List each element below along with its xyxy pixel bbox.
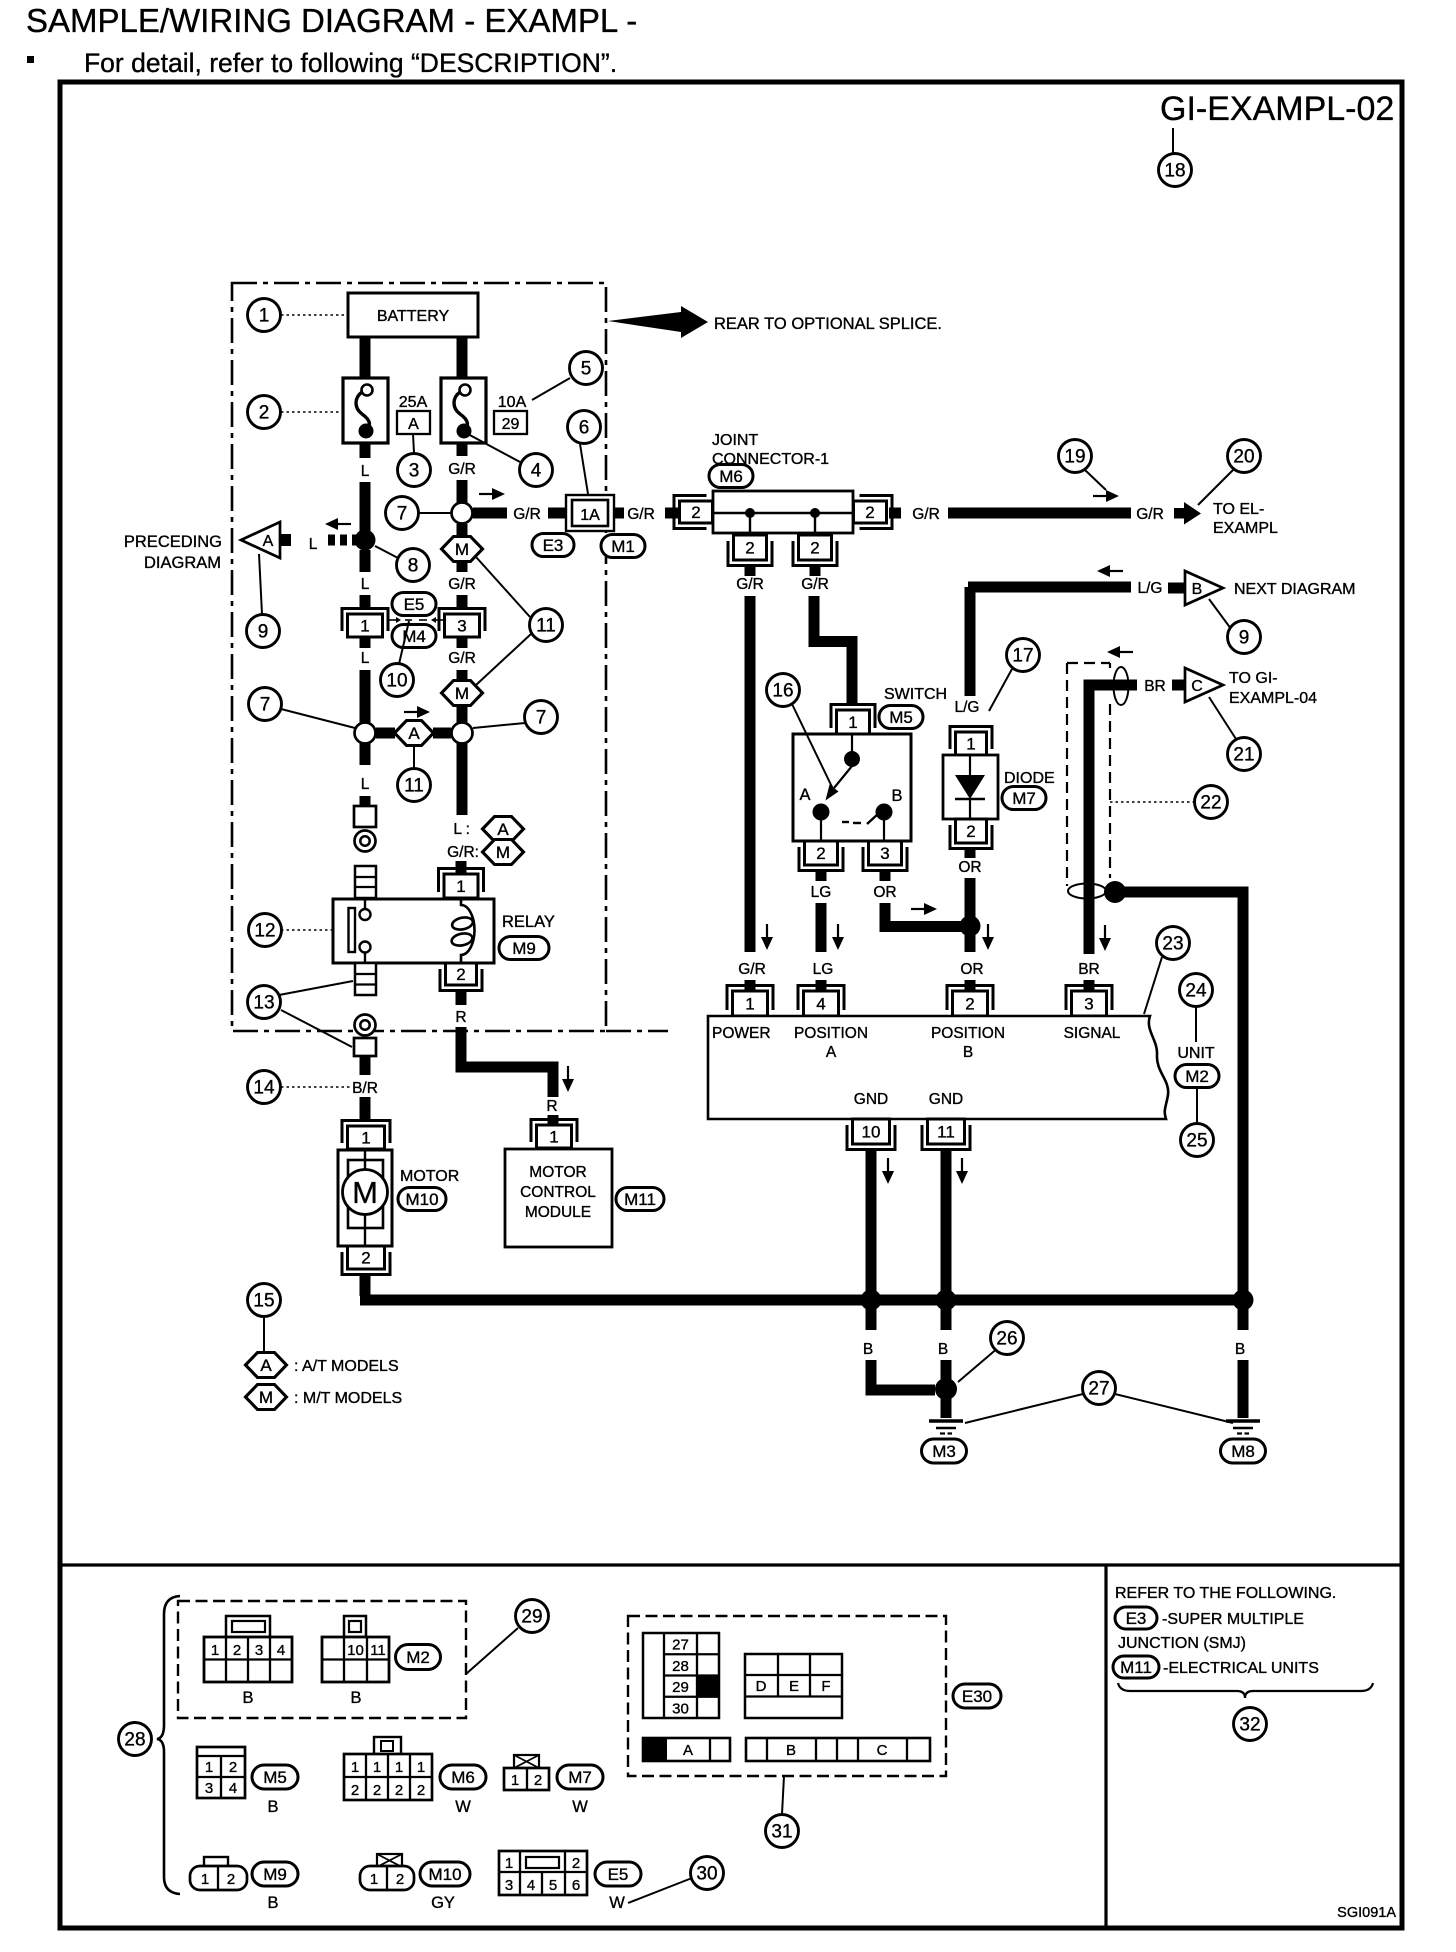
connector oval M4 (392, 625, 436, 648)
wire stub to 1A (548, 508, 568, 519)
switch contact B dot (876, 804, 893, 821)
MCM pin 1 (531, 1120, 577, 1149)
label L branch (309, 536, 318, 553)
legend separator line (60, 1563, 1402, 1566)
svg-text:G/R: G/R (738, 961, 766, 978)
label OR below diode (958, 859, 981, 876)
svg-text:EXAMPL-04: EXAMPL-04 (1229, 690, 1317, 707)
svg-text:28: 28 (672, 1658, 689, 1675)
callout 7 leader (419, 512, 451, 514)
svg-text:7: 7 (536, 708, 547, 729)
svg-text:1: 1 (456, 877, 465, 896)
svg-text:A: A (799, 786, 810, 804)
svg-text:29: 29 (672, 1679, 689, 1696)
stub BR into unit pin3 (1084, 980, 1095, 991)
svg-text:4: 4 (531, 461, 542, 482)
svg-text:L: L (361, 650, 370, 667)
legend connector M10 bowtie (377, 1854, 402, 1867)
svg-text:LG: LG (811, 884, 832, 901)
svg-text:B: B (938, 1341, 948, 1358)
svg-text:M2: M2 (406, 1648, 430, 1667)
svg-text:9: 9 (1239, 628, 1250, 649)
callout 25 (1181, 1124, 1214, 1157)
label GND b (929, 1091, 963, 1108)
connector oval M8 (1221, 1439, 1266, 1463)
svg-text:W: W (455, 1798, 471, 1816)
svg-text:B: B (963, 1044, 973, 1061)
callout 1 (248, 299, 281, 332)
svg-text:E5: E5 (608, 1865, 629, 1884)
fuse F1 25A (343, 378, 388, 443)
svg-text:L: L (361, 776, 370, 793)
diode M7 body (943, 755, 998, 819)
switch pin 3 (863, 841, 907, 871)
label L 3 (361, 650, 370, 667)
callout 10 (381, 664, 414, 697)
connector oval M11 legend (1113, 1656, 1159, 1678)
callout 30 (691, 1857, 724, 1890)
legend connector M9 (190, 1866, 247, 1890)
svg-text:2: 2 (534, 1772, 542, 1789)
legend hexagon A (483, 817, 524, 842)
legend hexagon M/T (246, 1385, 287, 1410)
label JOINT CONNECTOR-1 (712, 432, 829, 468)
wire R elbow (461, 1027, 553, 1097)
label B under connector A (242, 1689, 253, 1707)
svg-text:A: A (408, 724, 420, 743)
callout 19 (1059, 440, 1092, 473)
svg-text:2: 2 (361, 1249, 370, 1268)
callout 23 (1157, 927, 1190, 960)
dashed detail box 22 top (1067, 662, 1110, 664)
wire L (360, 482, 371, 540)
legend vertical divider (1104, 1565, 1107, 1928)
callout 7R leader (473, 723, 525, 728)
arrow right above G/R (479, 488, 505, 500)
svg-text:29: 29 (521, 1607, 542, 1628)
arrow left on L branch (325, 518, 351, 530)
fuse F2 10A (441, 378, 486, 443)
svg-text:1: 1 (205, 1759, 213, 1776)
label GND a (854, 1091, 888, 1108)
joint connector lower pin 2b (793, 535, 837, 566)
legend hexagon M (483, 840, 524, 865)
callout 5 (570, 352, 603, 385)
svg-text:JOINT: JOINT (712, 432, 758, 449)
connector oval M9 legend (252, 1862, 298, 1886)
connector oval E5 legend (595, 1862, 641, 1886)
junction dot B (935, 1378, 957, 1400)
svg-text:1: 1 (417, 1759, 425, 1776)
svg-text:G/R: G/R (448, 576, 476, 593)
stub before triangle C (1172, 680, 1184, 691)
wire L/G down to diode (965, 587, 976, 696)
svg-text:20: 20 (1233, 447, 1254, 468)
unit pin 10 (847, 1119, 895, 1150)
connector oval M7 (1002, 787, 1046, 810)
switch contact A lead (820, 820, 822, 841)
striped connector above relay (355, 866, 376, 898)
stub below diode (965, 849, 976, 858)
svg-text:1: 1 (211, 1642, 219, 1659)
svg-text:3: 3 (880, 844, 889, 863)
label GY under M10 (431, 1894, 455, 1912)
triangle C to GI-EXAMPL-04 (1185, 668, 1223, 702)
svg-text:1: 1 (549, 1128, 558, 1147)
arrow down beside GND11 (956, 1158, 968, 1184)
callout 21 (1228, 738, 1261, 771)
svg-text:MOTOR: MOTOR (529, 1164, 586, 1181)
callout 27 (1083, 1372, 1116, 1405)
svg-text:SAMPLE/WIRING DIAGRAM - EXAMPL: SAMPLE/WIRING DIAGRAM - EXAMPL - (26, 2, 637, 39)
label W under M6 (455, 1798, 471, 1816)
svg-text:M7: M7 (568, 1768, 592, 1787)
SMJ connector 1A box (572, 500, 608, 526)
svg-text:TO GI-: TO GI- (1229, 670, 1278, 687)
svg-text:OR: OR (960, 961, 983, 978)
connector oval E5 (392, 593, 436, 616)
svg-text:13: 13 (253, 993, 274, 1014)
callout 9 leader (259, 554, 262, 614)
callout 7 (386, 497, 419, 530)
svg-text:M9: M9 (512, 939, 536, 958)
motor M10 body (338, 1150, 392, 1246)
svg-text:B: B (863, 1341, 873, 1358)
svg-text:B: B (267, 1894, 278, 1912)
dashed detail box 22 left (1066, 663, 1068, 886)
svg-text:M5: M5 (263, 1768, 287, 1787)
svg-text:25: 25 (1186, 1131, 1207, 1152)
svg-text:CONTROL: CONTROL (520, 1184, 596, 1201)
callout 4 leader (466, 433, 520, 462)
relay coil (451, 899, 475, 963)
label B right (1235, 1341, 1245, 1358)
wire OR diode to unit (965, 878, 976, 952)
label W under E5 (609, 1894, 625, 1912)
unit M2 box (708, 1016, 1168, 1119)
svg-text:3: 3 (255, 1642, 263, 1659)
M2 connector A tab (226, 1616, 270, 1637)
svg-text:E30: E30 (962, 1687, 992, 1706)
svg-text:REFER TO THE FOLLOWING.: REFER TO THE FOLLOWING. (1115, 1585, 1336, 1602)
svg-text:LG: LG (813, 961, 834, 978)
wire B/R upper (360, 1056, 371, 1075)
svg-text:M3: M3 (932, 1442, 956, 1461)
arrow right above OR jog (911, 903, 937, 915)
svg-text:2: 2 (691, 503, 700, 522)
svg-text:30: 30 (672, 1700, 689, 1717)
label G/R below 2b (801, 576, 829, 593)
junction dot bus right (1233, 1290, 1254, 1311)
svg-text:G/R: G/R (448, 461, 476, 478)
switch throw arm (834, 766, 852, 788)
svg-text:L: L (309, 536, 318, 553)
svg-text:OR: OR (958, 859, 981, 876)
svg-text:R: R (455, 1009, 466, 1026)
wire R stub to MCM (548, 1115, 559, 1127)
svg-text:M: M (496, 843, 510, 862)
svg-text:1: 1 (361, 1129, 370, 1148)
svg-text:G/R: G/R (736, 576, 764, 593)
stub left of joint connector (665, 508, 678, 519)
svg-text:A: A (408, 416, 419, 433)
callout 2 (248, 396, 281, 429)
label JUNCTION SMJ (1118, 1635, 1246, 1652)
callout 25 leader (1196, 1088, 1198, 1122)
joint connector box (713, 491, 853, 533)
svg-text:15: 15 (253, 1291, 274, 1312)
wire B right lower (1238, 1360, 1249, 1418)
svg-text:31: 31 (771, 1822, 792, 1843)
svg-text:B: B (1192, 581, 1203, 598)
legend connector M5 (197, 1747, 245, 1798)
svg-text:2: 2 (227, 1871, 235, 1888)
stub before triangle B (1168, 583, 1184, 594)
legend dashed box M2 (178, 1601, 466, 1718)
dashed detail box 22 right lower (1109, 704, 1111, 878)
switch pin 1 (831, 705, 875, 735)
label W under M7 (572, 1798, 588, 1816)
dashed detail box 22 right upper (1109, 663, 1111, 668)
svg-text:M9: M9 (263, 1865, 287, 1884)
callout 28 bracket (157, 1596, 180, 1894)
connector oval M10 (398, 1188, 446, 1211)
callout 9R (1228, 621, 1261, 654)
wire stub right of 1A (614, 508, 624, 519)
svg-text:REAR TO OPTIONAL SPLICE.: REAR TO OPTIONAL SPLICE. (714, 315, 942, 333)
legend connector M6 (344, 1754, 432, 1800)
svg-text:2: 2 (966, 822, 975, 841)
svg-text:11: 11 (404, 776, 424, 797)
legend connector M10 (360, 1866, 414, 1890)
callout 3 (398, 454, 431, 487)
wire B/R to motor (360, 1097, 371, 1122)
E30 DEF grid (745, 1654, 842, 1718)
joint connector lower pin 2a (728, 535, 772, 566)
E30 left grid (643, 1633, 719, 1718)
connector oval E30 (953, 1684, 1001, 1708)
callout 11 leader a (476, 557, 530, 617)
stub right of joint connector (889, 508, 901, 519)
stub below switch pin3 (880, 871, 891, 881)
wire splice to right corner (1120, 892, 1243, 1296)
arrow left above BR (1107, 646, 1133, 658)
svg-text:A: A (497, 820, 509, 839)
arrow down beside OR (982, 924, 994, 950)
svg-text:G/R: G/R (448, 650, 476, 667)
label B under M9 (267, 1894, 278, 1912)
relay M9 box (333, 899, 494, 963)
connector oval M6 (709, 465, 753, 488)
label PRECEDING DIAGRAM (124, 533, 222, 572)
label contact B (891, 787, 902, 805)
junction dot bus 10 (861, 1290, 882, 1311)
switch arm arrowhead (826, 785, 839, 801)
svg-text:POSITION: POSITION (794, 1025, 868, 1042)
M2 connector A body (204, 1637, 292, 1682)
legend connector E5 (499, 1851, 587, 1895)
loop crossing horizontal (1068, 884, 1106, 899)
svg-text:SIGNAL: SIGNAL (1064, 1025, 1121, 1042)
striped connector below relay (355, 963, 376, 995)
splice SL (355, 723, 376, 744)
callout 11b leader (413, 747, 415, 768)
svg-text:16: 16 (772, 681, 793, 702)
wire G/R fuse2 down (457, 443, 468, 456)
callout 21 leader (1209, 697, 1236, 739)
connector E5/M4 pin 1 (342, 609, 388, 638)
dash-dot boundary extension (606, 1030, 668, 1033)
svg-text:1A: 1A (580, 507, 600, 524)
svg-text:G/R: G/R (627, 506, 655, 523)
svg-text:29: 29 (502, 416, 520, 433)
svg-text:BATTERY: BATTERY (377, 308, 450, 325)
callout 32 (1234, 1708, 1267, 1741)
svg-text:M: M (352, 1175, 378, 1210)
callout 15 leader (263, 1317, 265, 1351)
svg-text:GY: GY (431, 1894, 455, 1912)
label UNIT (1177, 1045, 1215, 1062)
connector oval E3 (532, 534, 574, 557)
svg-text:POWER: POWER (712, 1025, 771, 1042)
switch contact B lead (883, 820, 885, 841)
E30 bar A (643, 1738, 730, 1761)
wire L branch dashes (328, 535, 356, 546)
connector oval M6 legend (440, 1765, 486, 1789)
svg-text:B: B (786, 1742, 796, 1759)
label G/R 2 (513, 506, 541, 523)
callout 15 (248, 1284, 281, 1317)
unit pin 11 (922, 1119, 970, 1150)
page title (26, 2, 637, 39)
svg-text:8: 8 (408, 556, 419, 577)
callout 8 (397, 549, 430, 582)
wire motor pin2 stub (360, 1275, 371, 1296)
svg-text:G/R: G/R (1136, 506, 1164, 523)
callout 27 leader a (965, 1394, 1083, 1423)
svg-text:18: 18 (1164, 161, 1185, 182)
label TO EL-EXAMPL (1213, 501, 1278, 537)
callout 8 leader (375, 546, 398, 558)
wire stub splice to hexA right (433, 728, 451, 739)
relay contact bottom (360, 942, 371, 964)
svg-text:2: 2 (816, 844, 825, 863)
callout 12 (249, 914, 282, 947)
label MOTOR (400, 1168, 459, 1185)
svg-text:2: 2 (810, 539, 819, 558)
sheet code GI-EXAMPL-02 (1160, 90, 1394, 128)
wire G/R to splice (457, 480, 468, 503)
label NEXT DIAGRAM (1234, 581, 1356, 598)
svg-text:L/G: L/G (1138, 580, 1163, 597)
label B under connector B (350, 1689, 361, 1707)
svg-text:1: 1 (395, 1759, 403, 1776)
connector oval M5 (879, 706, 923, 729)
svg-text:B: B (1235, 1341, 1245, 1358)
svg-text:2: 2 (572, 1855, 580, 1872)
hexagon M on G/R wire (442, 537, 483, 562)
svg-text:B/R: B/R (352, 1080, 378, 1097)
svg-text:MODULE: MODULE (525, 1204, 591, 1221)
switch M5 box (793, 734, 911, 841)
svg-text:: A/T MODELS: : A/T MODELS (294, 1358, 399, 1375)
callout 13 leader a (279, 981, 353, 995)
label TO GI-EXAMPL-04 (1229, 670, 1317, 707)
joint connector left pin 2 (674, 496, 713, 529)
label L 4 (361, 776, 370, 793)
svg-text:M7: M7 (1012, 789, 1036, 808)
svg-text:GND: GND (929, 1091, 963, 1108)
callout 14 leader (281, 1086, 350, 1088)
callout 7L (249, 688, 282, 721)
svg-text:M: M (259, 1388, 273, 1407)
label A/T MODELS (294, 1358, 399, 1375)
stub LG into unit pin4 (816, 980, 827, 991)
relay pin 2 (440, 963, 482, 991)
svg-text:11: 11 (937, 1123, 955, 1142)
svg-text:DIODE: DIODE (1004, 770, 1055, 787)
label B 11 (938, 1341, 948, 1358)
switch contact B tail (867, 814, 878, 824)
connector oval M9 (499, 937, 549, 960)
stub G/R into unit pin1 (745, 980, 756, 991)
big arrow TO EL-EXAMPL (1174, 502, 1201, 525)
stub below pin 2b (810, 566, 821, 576)
label L/G above diode (955, 699, 980, 716)
label G/R: (447, 844, 479, 861)
label REFER TO THE FOLLOWING (1115, 1585, 1336, 1602)
svg-text:3: 3 (205, 1780, 213, 1797)
label POWER (712, 1025, 771, 1042)
M2 connector B tab (344, 1616, 366, 1637)
label contact A (799, 786, 810, 804)
callout 14 (248, 1071, 281, 1104)
svg-text:SWITCH: SWITCH (884, 686, 947, 703)
wire B stub right (1238, 1306, 1249, 1330)
svg-text:1: 1 (511, 1772, 519, 1789)
callout 13 (248, 986, 281, 1019)
svg-text:A: A (260, 1356, 272, 1375)
triangle A preceding (241, 522, 291, 558)
unit pin 1 (727, 986, 773, 1017)
wire G/R joint to unit (745, 596, 756, 952)
callout 24 leader (1195, 1007, 1197, 1042)
label SIGNAL (1064, 1025, 1121, 1042)
svg-text:23: 23 (1162, 934, 1183, 955)
svg-text:1: 1 (505, 1855, 513, 1872)
label DIODE (1004, 770, 1055, 787)
arrow left above LG end (1097, 565, 1123, 577)
svg-text:: M/T MODELS: : M/T MODELS (294, 1390, 402, 1407)
ground M3 (929, 1421, 963, 1434)
terminal block left (354, 806, 376, 827)
callout 30 leader (628, 1878, 692, 1903)
svg-text:2: 2 (745, 539, 754, 558)
svg-text:B: B (350, 1689, 361, 1707)
joint connector right pin 2 (854, 496, 893, 529)
svg-text:10A: 10A (498, 394, 527, 411)
wire G/R to hexagon M2 (457, 670, 468, 680)
wire OR jog (885, 903, 965, 927)
mate arrows between inline connectors (387, 617, 444, 623)
ground bus wire (360, 1295, 1249, 1306)
battery B1 (348, 293, 478, 337)
svg-text:26: 26 (996, 1329, 1017, 1350)
hexagon M on G/R wire 2 (442, 681, 483, 706)
callout 22 (1195, 786, 1228, 819)
junction dot bus 11 (936, 1290, 957, 1311)
svg-text:B: B (891, 787, 902, 805)
